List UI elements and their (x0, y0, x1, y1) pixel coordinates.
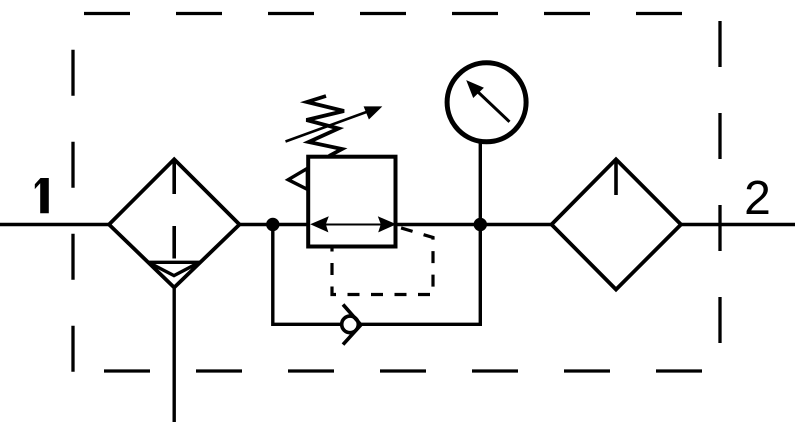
svg-text:2: 2 (744, 172, 771, 225)
